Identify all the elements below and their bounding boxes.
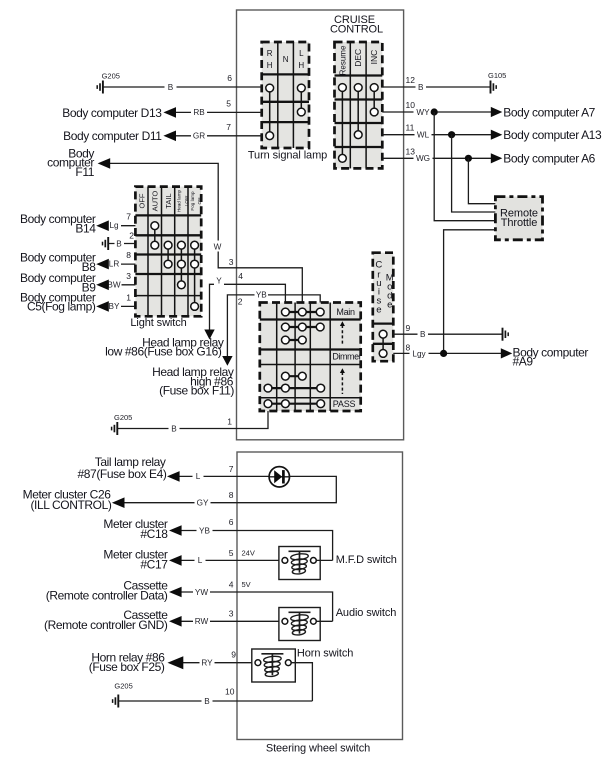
- svg-text:1: 1: [227, 417, 232, 427]
- svg-text:13: 13: [406, 146, 416, 156]
- arrow to Body computer A6: [491, 153, 503, 163]
- svg-text:Audio switch: Audio switch: [336, 607, 397, 619]
- remote throttle box U1: [495, 197, 542, 240]
- svg-text:2: 2: [129, 231, 134, 241]
- svg-text:LR: LR: [109, 260, 120, 269]
- wire B pin9 to ground: [393, 333, 502, 335]
- svg-text:3: 3: [229, 608, 234, 618]
- wire B pin10 to ground: [119, 700, 313, 702]
- svg-text:Steering wheel switch: Steering wheel switch: [266, 743, 370, 755]
- svg-text:N: N: [283, 55, 289, 64]
- row1 Main contacts: [285, 311, 320, 313]
- contact circle row3 RH: [266, 132, 274, 140]
- wire L pin7 tail lamp relay: [179, 475, 270, 477]
- svg-text:YW: YW: [195, 588, 208, 597]
- svg-text:Turn signal lamp: Turn signal lamp: [248, 150, 327, 162]
- row2 contacts: [285, 326, 320, 328]
- wire B pin1 from dimmer to ground: [118, 411, 268, 429]
- svg-text:24V: 24V: [242, 549, 255, 558]
- svg-text:3: 3: [229, 257, 234, 267]
- svg-text:6: 6: [229, 517, 234, 527]
- wire from remote throttle down to Lgy junction: [444, 230, 496, 354]
- svg-text:WL: WL: [417, 131, 430, 140]
- svg-text:B14: B14: [75, 222, 96, 236]
- light switch SW3: [135, 187, 202, 317]
- junction dot Lgy: [440, 350, 447, 357]
- svg-text:INC: INC: [369, 50, 379, 65]
- contact circles row2: [151, 241, 159, 249]
- link cruise mode contacts: [382, 334, 384, 353]
- junction dot WL: [448, 131, 455, 138]
- ground G205 mid left: [112, 413, 133, 435]
- wire LR pin8: [108, 263, 135, 265]
- svg-text:6: 6: [227, 73, 232, 83]
- link HEAD column: [180, 245, 182, 285]
- svg-text:Throttle: Throttle: [501, 217, 538, 229]
- svg-text:Lgy: Lgy: [412, 350, 426, 359]
- wire YW pin4 cassette data: [181, 592, 333, 621]
- svg-text:9: 9: [231, 650, 236, 660]
- svg-text:7: 7: [126, 212, 131, 222]
- svg-text:8: 8: [126, 250, 131, 260]
- svg-text:RY: RY: [201, 659, 213, 668]
- link INC column: [373, 88, 375, 113]
- svg-text:Horn switch: Horn switch: [297, 648, 353, 660]
- arrow down to head lamp relay high: [222, 356, 232, 366]
- M.F.D switch SW6: [279, 547, 320, 580]
- steering wheel switch upper box: [237, 10, 404, 440]
- contact circles row1: [266, 84, 274, 92]
- svg-text:RB: RB: [193, 108, 205, 117]
- svg-text:ON: ON: [197, 198, 202, 205]
- wire WL pin11: [382, 134, 493, 136]
- row5 contacts: [268, 387, 321, 389]
- svg-text:2: 2: [238, 296, 243, 306]
- arrow to meter cluster C17: [169, 555, 182, 566]
- svg-text:10: 10: [406, 100, 416, 110]
- arrow to Body computer A7: [491, 107, 503, 117]
- svg-text:G205: G205: [102, 72, 120, 81]
- svg-text:4: 4: [238, 271, 243, 281]
- row6 PASS contacts: [268, 403, 321, 405]
- arrow to tail lamp relay: [167, 471, 180, 482]
- svg-text:OFF: OFF: [138, 193, 147, 208]
- row3 contacts: [285, 339, 302, 341]
- svg-text:DEC: DEC: [353, 49, 363, 67]
- svg-text:12: 12: [406, 75, 416, 85]
- ground G205 top left: [97, 72, 120, 94]
- arrow to Body computer F11: [98, 158, 111, 169]
- dashed arrow up 2: [341, 372, 343, 394]
- svg-text:4: 4: [229, 580, 234, 590]
- wire YB pin6 meter cluster C18: [181, 531, 333, 561]
- contact circle row4 HEAD: [178, 281, 186, 289]
- ground G205 bottom: [113, 682, 133, 708]
- link TAIL column: [167, 245, 169, 264]
- contact circles row3: [164, 260, 172, 268]
- junction dot WG: [465, 155, 472, 162]
- contact circle row2 LH: [297, 108, 305, 116]
- svg-text:RW: RW: [195, 617, 209, 626]
- svg-text:Main: Main: [336, 307, 355, 317]
- wire WY drop to remote throttle: [434, 112, 495, 221]
- wire Lg pin7 light switch: [108, 225, 135, 227]
- arrow to meter cluster C18: [169, 525, 182, 536]
- svg-text:B: B: [418, 83, 424, 92]
- wire Y pin4: [210, 284, 286, 330]
- dashed arrow up 1: [341, 325, 343, 346]
- wire MFD right terminal: [316, 559, 332, 561]
- svg-text:BW: BW: [107, 280, 120, 289]
- svg-text:YB: YB: [256, 291, 267, 300]
- svg-text:B: B: [168, 83, 174, 92]
- svg-text:(Fuse box F25): (Fuse box F25): [89, 660, 165, 674]
- contact circle row2 INC: [370, 108, 378, 116]
- svg-text:TAIL: TAIL: [164, 193, 173, 208]
- dimmer switch SW4: [260, 303, 362, 412]
- svg-text:GR: GR: [193, 132, 205, 141]
- contact circle row3 DEC: [354, 131, 362, 139]
- wire audio right terminal: [316, 620, 332, 622]
- svg-text:B: B: [116, 239, 122, 248]
- wire BY pin1: [108, 305, 135, 307]
- arrow to Body computer D13: [163, 107, 176, 118]
- svg-text:B: B: [204, 697, 210, 706]
- ground at cruise mode pin9: [503, 328, 509, 341]
- svg-text:BY: BY: [109, 302, 120, 311]
- wire B pin2 light switch: [109, 243, 136, 245]
- svg-text:H: H: [298, 61, 304, 70]
- svg-text:YB: YB: [199, 526, 210, 535]
- wire Lgy pin8 to body computer A9: [393, 352, 503, 354]
- svg-text:F11: F11: [75, 165, 94, 179]
- svg-text:Body computer A7: Body computer A7: [503, 105, 595, 119]
- svg-text:(ILL CONTROL): (ILL CONTROL): [30, 498, 111, 512]
- wire RB pin5: [175, 111, 262, 113]
- contact circle pin8: [379, 350, 387, 358]
- arrow to cassette data: [169, 587, 182, 598]
- arrow to Body computer A13: [491, 130, 503, 140]
- svg-text:L: L: [196, 472, 201, 481]
- svg-text:(Fuse box F11): (Fuse box F11): [159, 384, 234, 398]
- turn signal lamp switch SW1: [262, 42, 309, 148]
- svg-text:#C17: #C17: [140, 557, 168, 571]
- contact circles row1: [339, 84, 347, 92]
- link DEC column: [357, 88, 359, 135]
- svg-text:G105: G105: [488, 71, 506, 80]
- link LH column: [300, 88, 302, 112]
- link RH column: [269, 88, 271, 136]
- svg-text:Fog lamp: Fog lamp: [190, 191, 195, 211]
- svg-text:C5(Fog lamp): C5(Fog lamp): [27, 300, 96, 314]
- contact circle row5 FOG: [191, 303, 199, 311]
- wire YB pin2: [227, 295, 320, 356]
- link FOG column: [194, 245, 196, 306]
- diode D1: [269, 467, 289, 487]
- svg-text:5: 5: [226, 99, 231, 109]
- cruise mode switch SW5: [373, 253, 394, 362]
- link Resume column: [341, 88, 343, 159]
- svg-text:#A9: #A9: [513, 355, 534, 369]
- svg-text:Body computer D13: Body computer D13: [62, 106, 162, 120]
- arrow to horn relay: [168, 656, 184, 669]
- wire horn right terminal down: [291, 663, 312, 701]
- svg-text:low #86(Fuse box G16): low #86(Fuse box G16): [105, 345, 222, 359]
- svg-text:e: e: [387, 300, 392, 311]
- ground at light switch: [103, 237, 109, 250]
- svg-text:11: 11: [406, 123, 415, 133]
- svg-text:Body computer A6: Body computer A6: [503, 152, 595, 166]
- steering wheel switch lower box: [237, 452, 403, 740]
- wire BW pin3: [108, 284, 135, 286]
- svg-text:(Remote controller Data): (Remote controller Data): [46, 589, 168, 603]
- svg-text:GY: GY: [197, 499, 209, 508]
- wire GY pin8 meter cluster C26: [124, 476, 336, 502]
- svg-text:R: R: [267, 49, 273, 58]
- svg-text:8: 8: [229, 490, 234, 500]
- svg-text:Light switch: Light switch: [130, 317, 186, 329]
- svg-text:10: 10: [225, 687, 235, 697]
- junction dot WY: [431, 108, 438, 115]
- contact circle row1 AUTO: [151, 222, 159, 230]
- svg-text:WG: WG: [416, 154, 430, 163]
- wire RW pin3 cassette gnd: [181, 620, 279, 622]
- svg-text:7: 7: [226, 122, 231, 132]
- wire L pin5 meter cluster C17: [181, 559, 279, 561]
- svg-text:G205: G205: [114, 413, 132, 422]
- svg-text:Body computer A13: Body computer A13: [503, 128, 602, 142]
- svg-text:(Remote controller GND): (Remote controller GND): [44, 618, 168, 632]
- wire W from body computer F11: [110, 163, 303, 312]
- svg-text:B: B: [171, 424, 177, 433]
- svg-text:Resume: Resume: [338, 45, 347, 75]
- arrow to Body computer B14: [96, 220, 109, 231]
- Horn switch SW8: [252, 649, 295, 682]
- arrow to cassette gnd: [169, 616, 182, 627]
- cruise control switch SW2: [335, 42, 383, 168]
- arrow to Body computer B8: [96, 259, 109, 270]
- arrow to Body computer D11: [163, 131, 176, 142]
- svg-text:5: 5: [229, 548, 234, 558]
- contact circle row4 Resume: [339, 154, 347, 162]
- svg-text:M.F.D switch: M.F.D switch: [336, 554, 397, 566]
- arrow down to head lamp relay low: [204, 330, 214, 340]
- arrow to Body computer B9: [96, 280, 109, 291]
- svg-text:Dimmer: Dimmer: [332, 352, 361, 362]
- wire WG pin13: [382, 157, 493, 159]
- svg-text:Lg: Lg: [109, 221, 119, 230]
- svg-text:Y: Y: [216, 277, 222, 286]
- svg-text:L: L: [198, 556, 203, 565]
- wire B pin6 to turn signal: [103, 86, 261, 88]
- svg-text:7: 7: [229, 464, 234, 474]
- svg-text:CONTROL: CONTROL: [330, 24, 383, 36]
- contact circle pin9: [379, 330, 387, 338]
- svg-text:8: 8: [406, 342, 411, 352]
- wire WY pin10: [382, 111, 493, 113]
- arrow to meter cluster C26: [112, 497, 125, 508]
- Audio switch SW7: [279, 608, 320, 641]
- svg-text:PASS: PASS: [333, 399, 356, 409]
- wire GR pin7: [175, 135, 262, 137]
- arrow to Body computer A9: [501, 348, 513, 358]
- svg-text:3: 3: [126, 271, 131, 281]
- wire RY pin9 horn relay: [183, 662, 252, 664]
- svg-text:Head lamp: Head lamp: [177, 189, 182, 212]
- svg-text:#87(Fuse box E4): #87(Fuse box E4): [78, 467, 167, 481]
- wire WL drop to remote throttle: [452, 135, 496, 212]
- svg-text:AUTO: AUTO: [151, 190, 160, 211]
- wire WG drop to remote throttle: [468, 158, 495, 203]
- svg-text:e: e: [376, 305, 381, 316]
- row4 contacts: [285, 375, 302, 377]
- svg-text:G205: G205: [114, 682, 132, 691]
- ground G105 top right: [488, 71, 506, 94]
- arrow to Body computer C5: [96, 301, 109, 312]
- svg-text:9: 9: [406, 323, 411, 333]
- svg-text:Body computer D11: Body computer D11: [63, 129, 162, 143]
- svg-text:WY: WY: [416, 108, 430, 117]
- wire B pin12 to G105: [382, 86, 490, 88]
- svg-text:L: L: [299, 49, 304, 58]
- link AUTO column: [154, 226, 156, 246]
- svg-text:B: B: [420, 330, 426, 339]
- svg-text:1: 1: [126, 292, 131, 302]
- svg-text:H: H: [267, 61, 273, 70]
- svg-text:LOW: LOW: [184, 195, 189, 206]
- svg-text:5V: 5V: [242, 580, 251, 589]
- svg-text:#C18: #C18: [140, 527, 168, 541]
- svg-text:W: W: [214, 243, 222, 252]
